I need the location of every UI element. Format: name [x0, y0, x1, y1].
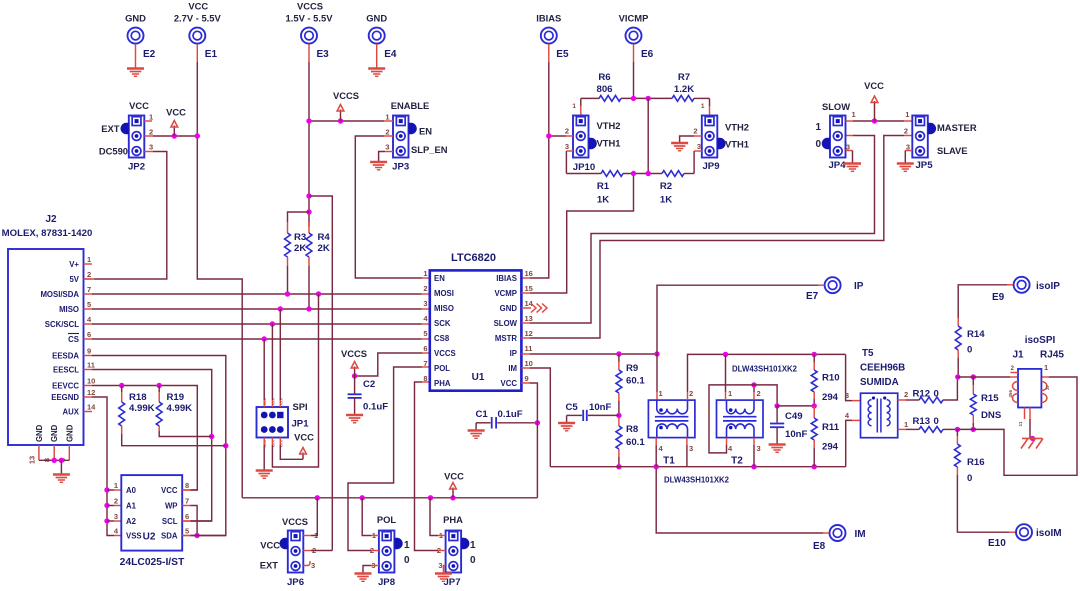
svg-text:1: 1 — [470, 540, 476, 551]
svg-text:1: 1 — [1044, 363, 1048, 372]
svg-text:T2: T2 — [731, 456, 743, 467]
svg-text:24LC025-I/ST: 24LC025-I/ST — [120, 557, 185, 568]
svg-text:6: 6 — [185, 512, 189, 521]
svg-text:VCC: VCC — [294, 432, 314, 443]
svg-text:10: 10 — [87, 377, 95, 386]
svg-text:C2: C2 — [363, 379, 375, 390]
svg-text:5V: 5V — [69, 275, 79, 284]
svg-text:SLP_EN: SLP_EN — [411, 144, 448, 155]
svg-text:R16: R16 — [967, 457, 985, 468]
svg-text:8: 8 — [185, 481, 189, 490]
svg-text:806: 806 — [596, 84, 612, 95]
svg-text:JP8: JP8 — [378, 577, 396, 586]
svg-text:2: 2 — [689, 389, 693, 398]
svg-text:1: 1 — [815, 122, 821, 133]
svg-text:JP9: JP9 — [702, 161, 719, 172]
svg-text:AUX: AUX — [63, 408, 80, 417]
svg-text:3: 3 — [845, 391, 849, 400]
svg-text:JP3: JP3 — [392, 162, 409, 173]
svg-text:EXT: EXT — [101, 123, 120, 134]
svg-text:E7: E7 — [806, 291, 819, 302]
svg-text:T1: T1 — [663, 456, 675, 467]
svg-text:VCC: VCC — [260, 540, 280, 551]
svg-text:VCCS: VCCS — [434, 349, 456, 358]
svg-text:2: 2 — [904, 390, 908, 399]
svg-text:R10: R10 — [822, 373, 840, 384]
svg-text:12: 12 — [525, 329, 533, 338]
svg-text:SCK/SCL: SCK/SCL — [45, 320, 79, 329]
svg-text:T5: T5 — [862, 348, 874, 359]
svg-text:0: 0 — [470, 555, 476, 566]
svg-text:E5: E5 — [556, 49, 569, 60]
svg-text:EESCL: EESCL — [53, 366, 79, 375]
svg-text:C49: C49 — [785, 411, 803, 422]
svg-text:SDA: SDA — [161, 532, 178, 541]
svg-text:1: 1 — [87, 255, 91, 264]
svg-text:MASTER: MASTER — [937, 122, 977, 133]
svg-text:R2: R2 — [660, 181, 672, 192]
svg-text:IP: IP — [510, 349, 517, 358]
svg-text:R3: R3 — [294, 232, 306, 243]
svg-text:A0: A0 — [126, 486, 137, 495]
svg-text:J1: J1 — [1012, 350, 1024, 361]
svg-text:R8: R8 — [626, 424, 639, 435]
svg-text:14: 14 — [87, 403, 96, 412]
svg-text:CEEH96B: CEEH96B — [860, 363, 905, 374]
svg-text:3: 3 — [423, 299, 427, 308]
svg-text:E1: E1 — [205, 49, 218, 60]
svg-text:2: 2 — [565, 127, 569, 136]
svg-text:R4: R4 — [318, 232, 331, 243]
svg-text:0: 0 — [934, 389, 939, 400]
svg-text:JP4: JP4 — [828, 160, 846, 171]
svg-text:IBIAS: IBIAS — [536, 13, 561, 24]
svg-text:1: 1 — [404, 540, 410, 551]
svg-text:VTH1: VTH1 — [597, 138, 621, 149]
svg-text:GND: GND — [35, 424, 44, 442]
svg-text:IBIAS: IBIAS — [496, 274, 517, 283]
svg-text:1.2K: 1.2K — [674, 84, 694, 95]
svg-text:13: 13 — [525, 314, 533, 323]
svg-text:R15: R15 — [981, 393, 999, 404]
svg-text:294: 294 — [822, 442, 839, 453]
svg-text:A1: A1 — [126, 502, 137, 511]
svg-text:294: 294 — [822, 392, 839, 403]
svg-text:60.1: 60.1 — [626, 437, 645, 448]
svg-text:10nF: 10nF — [589, 402, 612, 413]
svg-text:VCC: VCC — [161, 486, 178, 495]
svg-text:2: 2 — [693, 127, 697, 136]
svg-text:9: 9 — [87, 347, 91, 356]
svg-text:1.5V - 5.5V: 1.5V - 5.5V — [286, 13, 334, 24]
svg-text:R1: R1 — [597, 181, 610, 192]
svg-text:MOSI: MOSI — [434, 289, 454, 298]
svg-text:IP: IP — [854, 281, 864, 292]
svg-text:A2: A2 — [126, 517, 137, 526]
svg-text:E4: E4 — [384, 49, 397, 60]
svg-text:1K: 1K — [660, 195, 672, 206]
svg-text:VCC: VCC — [501, 379, 518, 388]
svg-text:R6: R6 — [598, 72, 610, 83]
svg-text:C1: C1 — [476, 409, 489, 420]
svg-text:2.7V - 5.5V: 2.7V - 5.5V — [174, 13, 222, 24]
svg-text:8: 8 — [423, 374, 427, 383]
svg-text:JP1: JP1 — [291, 419, 309, 430]
svg-text:1: 1 — [149, 113, 153, 122]
svg-text:RJ45: RJ45 — [1040, 350, 1064, 361]
svg-text:SLOW: SLOW — [494, 319, 518, 328]
svg-text:37: 37 — [1045, 384, 1050, 390]
svg-text:11: 11 — [1018, 421, 1023, 426]
svg-text:CS: CS — [68, 335, 79, 344]
svg-text:E8: E8 — [813, 541, 826, 552]
svg-text:isoSPI: isoSPI — [1025, 335, 1056, 346]
svg-text:EESDA: EESDA — [52, 352, 79, 361]
svg-text:VTH2: VTH2 — [725, 122, 749, 133]
svg-text:V+: V+ — [69, 260, 79, 269]
svg-text:4.99K: 4.99K — [129, 403, 155, 414]
svg-text:VCCS: VCCS — [333, 90, 359, 101]
svg-text:U2: U2 — [143, 532, 156, 543]
svg-text:R12: R12 — [913, 389, 931, 400]
svg-text:6: 6 — [423, 344, 427, 353]
svg-text:JP6: JP6 — [287, 577, 304, 586]
svg-text:EXT: EXT — [260, 560, 279, 571]
svg-text:SCK: SCK — [434, 319, 451, 328]
svg-text:16: 16 — [525, 269, 533, 278]
svg-text:CS8: CS8 — [434, 334, 450, 343]
svg-text:VCC: VCC — [188, 1, 208, 12]
svg-text:0.1uF: 0.1uF — [363, 402, 388, 413]
svg-text:POL: POL — [434, 364, 450, 373]
svg-text:6: 6 — [87, 330, 91, 339]
svg-text:E6: E6 — [641, 49, 654, 60]
svg-text:DNS: DNS — [981, 410, 1002, 421]
svg-text:DLW43SH101XK2: DLW43SH101XK2 — [664, 476, 730, 485]
svg-text:SLOW: SLOW — [822, 101, 850, 112]
svg-text:10nF: 10nF — [785, 429, 808, 440]
svg-text:IM: IM — [508, 364, 517, 373]
svg-text:GND: GND — [65, 424, 74, 442]
svg-text:MISO: MISO — [434, 304, 454, 313]
svg-text:1: 1 — [852, 110, 856, 119]
svg-text:MOSI/SDA: MOSI/SDA — [40, 290, 79, 299]
svg-text:5: 5 — [423, 329, 427, 338]
svg-text:EN: EN — [419, 126, 432, 137]
svg-text:R19: R19 — [167, 392, 185, 403]
svg-text:3: 3 — [114, 512, 118, 521]
svg-text:11: 11 — [87, 361, 95, 370]
svg-text:IM: IM — [855, 529, 866, 540]
svg-text:2: 2 — [114, 497, 118, 506]
svg-text:2: 2 — [149, 128, 153, 137]
svg-text:1: 1 — [572, 103, 576, 110]
svg-text:SLAVE: SLAVE — [937, 145, 968, 156]
svg-text:LTC6820: LTC6820 — [451, 252, 496, 264]
svg-text:1K: 1K — [597, 195, 609, 206]
svg-text:1: 1 — [728, 389, 732, 398]
svg-text:9: 9 — [525, 374, 529, 383]
svg-text:ENABLE: ENABLE — [391, 100, 430, 111]
svg-text:7: 7 — [87, 285, 91, 294]
svg-text:MOLEX, 87831-1420: MOLEX, 87831-1420 — [2, 228, 93, 239]
svg-text:JP2: JP2 — [128, 162, 145, 173]
svg-text:EEGND: EEGND — [51, 393, 79, 402]
svg-text:3: 3 — [697, 142, 701, 151]
svg-text:1: 1 — [905, 110, 909, 119]
svg-text:3: 3 — [757, 444, 761, 453]
svg-text:VSS: VSS — [126, 532, 142, 541]
svg-text:JP10: JP10 — [573, 162, 595, 173]
svg-text:VCCS: VCCS — [341, 348, 367, 359]
svg-text:SCL: SCL — [162, 517, 178, 526]
svg-text:2K: 2K — [318, 243, 330, 254]
svg-text:R18: R18 — [129, 392, 147, 403]
svg-text:VICMP: VICMP — [619, 13, 649, 24]
svg-text:1: 1 — [423, 269, 427, 278]
svg-text:JP5: JP5 — [915, 160, 933, 171]
svg-text:C5: C5 — [566, 402, 579, 413]
svg-text:DC590: DC590 — [99, 146, 128, 157]
svg-text:2: 2 — [87, 270, 91, 279]
svg-text:R14: R14 — [967, 329, 985, 340]
svg-text:isoIP: isoIP — [1036, 281, 1060, 292]
svg-text:11: 11 — [525, 344, 533, 353]
svg-text:1: 1 — [385, 113, 389, 122]
svg-text:VCC: VCC — [166, 107, 186, 118]
svg-text:1: 1 — [659, 389, 663, 398]
svg-text:VCC: VCC — [864, 80, 884, 91]
svg-text:R9: R9 — [626, 363, 638, 374]
svg-text:VCCS: VCCS — [297, 1, 323, 12]
svg-text:VCCS: VCCS — [282, 516, 308, 527]
svg-text:0: 0 — [815, 139, 821, 150]
svg-text:U1: U1 — [472, 372, 485, 383]
svg-text:R7: R7 — [678, 72, 690, 83]
svg-text:GND: GND — [50, 424, 59, 442]
svg-text:2K: 2K — [294, 243, 306, 254]
svg-text:0: 0 — [967, 345, 972, 356]
svg-text:MSTR: MSTR — [495, 334, 517, 343]
svg-text:E9: E9 — [992, 292, 1005, 303]
svg-text:13: 13 — [27, 456, 36, 464]
svg-text:POL: POL — [377, 514, 397, 525]
svg-text:E10: E10 — [988, 538, 1006, 549]
svg-text:SUMIDA: SUMIDA — [860, 377, 899, 388]
svg-text:2: 2 — [757, 389, 761, 398]
svg-text:3: 3 — [689, 444, 693, 453]
svg-text:WP: WP — [165, 502, 178, 511]
svg-text:E3: E3 — [317, 49, 330, 60]
svg-text:R13: R13 — [913, 416, 931, 427]
svg-text:DLW43SH101XK2: DLW43SH101XK2 — [732, 365, 798, 374]
svg-text:3: 3 — [149, 143, 153, 152]
svg-text:2: 2 — [385, 128, 389, 137]
svg-text:VCC: VCC — [129, 100, 149, 111]
svg-text:2: 2 — [423, 284, 427, 293]
svg-text:MISO: MISO — [59, 305, 79, 314]
svg-text:0: 0 — [404, 555, 410, 566]
svg-text:4.99K: 4.99K — [167, 403, 193, 414]
svg-text:3: 3 — [438, 561, 442, 570]
svg-text:VTH2: VTH2 — [597, 120, 621, 131]
svg-text:12: 12 — [87, 388, 95, 397]
svg-text:456: 456 — [1008, 390, 1013, 398]
svg-text:GND: GND — [500, 304, 518, 313]
svg-text:2: 2 — [904, 127, 908, 136]
svg-text:E2: E2 — [143, 49, 156, 60]
svg-text:isoIM: isoIM — [1036, 528, 1062, 539]
svg-text:3: 3 — [565, 142, 569, 151]
svg-text:1: 1 — [701, 103, 705, 110]
svg-text:60.1: 60.1 — [626, 376, 645, 387]
svg-text:EEVCC: EEVCC — [52, 382, 79, 391]
svg-text:0: 0 — [967, 473, 972, 484]
svg-text:PHA: PHA — [443, 514, 463, 525]
svg-text:R11: R11 — [822, 422, 840, 433]
svg-text:VCC: VCC — [444, 471, 464, 482]
svg-text:EN: EN — [434, 274, 445, 283]
svg-text:0.1uF: 0.1uF — [498, 409, 523, 420]
svg-text:7: 7 — [185, 497, 189, 506]
svg-text:10: 10 — [525, 359, 533, 368]
svg-text:3: 3 — [311, 561, 315, 570]
svg-text:VTH1: VTH1 — [725, 139, 749, 150]
svg-text:5: 5 — [185, 527, 189, 536]
svg-text:1: 1 — [114, 481, 118, 490]
svg-text:J2: J2 — [45, 214, 57, 225]
svg-text:PHA: PHA — [434, 379, 451, 388]
svg-text:GND: GND — [125, 13, 146, 24]
svg-text:3: 3 — [385, 143, 389, 152]
svg-text:VCMP: VCMP — [494, 289, 517, 298]
svg-text:14: 14 — [525, 299, 534, 308]
svg-text:1: 1 — [904, 420, 908, 429]
svg-text:5: 5 — [87, 300, 91, 309]
svg-text:GND: GND — [366, 13, 387, 24]
svg-text:0: 0 — [934, 416, 939, 427]
svg-text:15: 15 — [525, 284, 533, 293]
svg-text:SPI: SPI — [292, 401, 307, 412]
svg-text:7: 7 — [423, 359, 427, 368]
